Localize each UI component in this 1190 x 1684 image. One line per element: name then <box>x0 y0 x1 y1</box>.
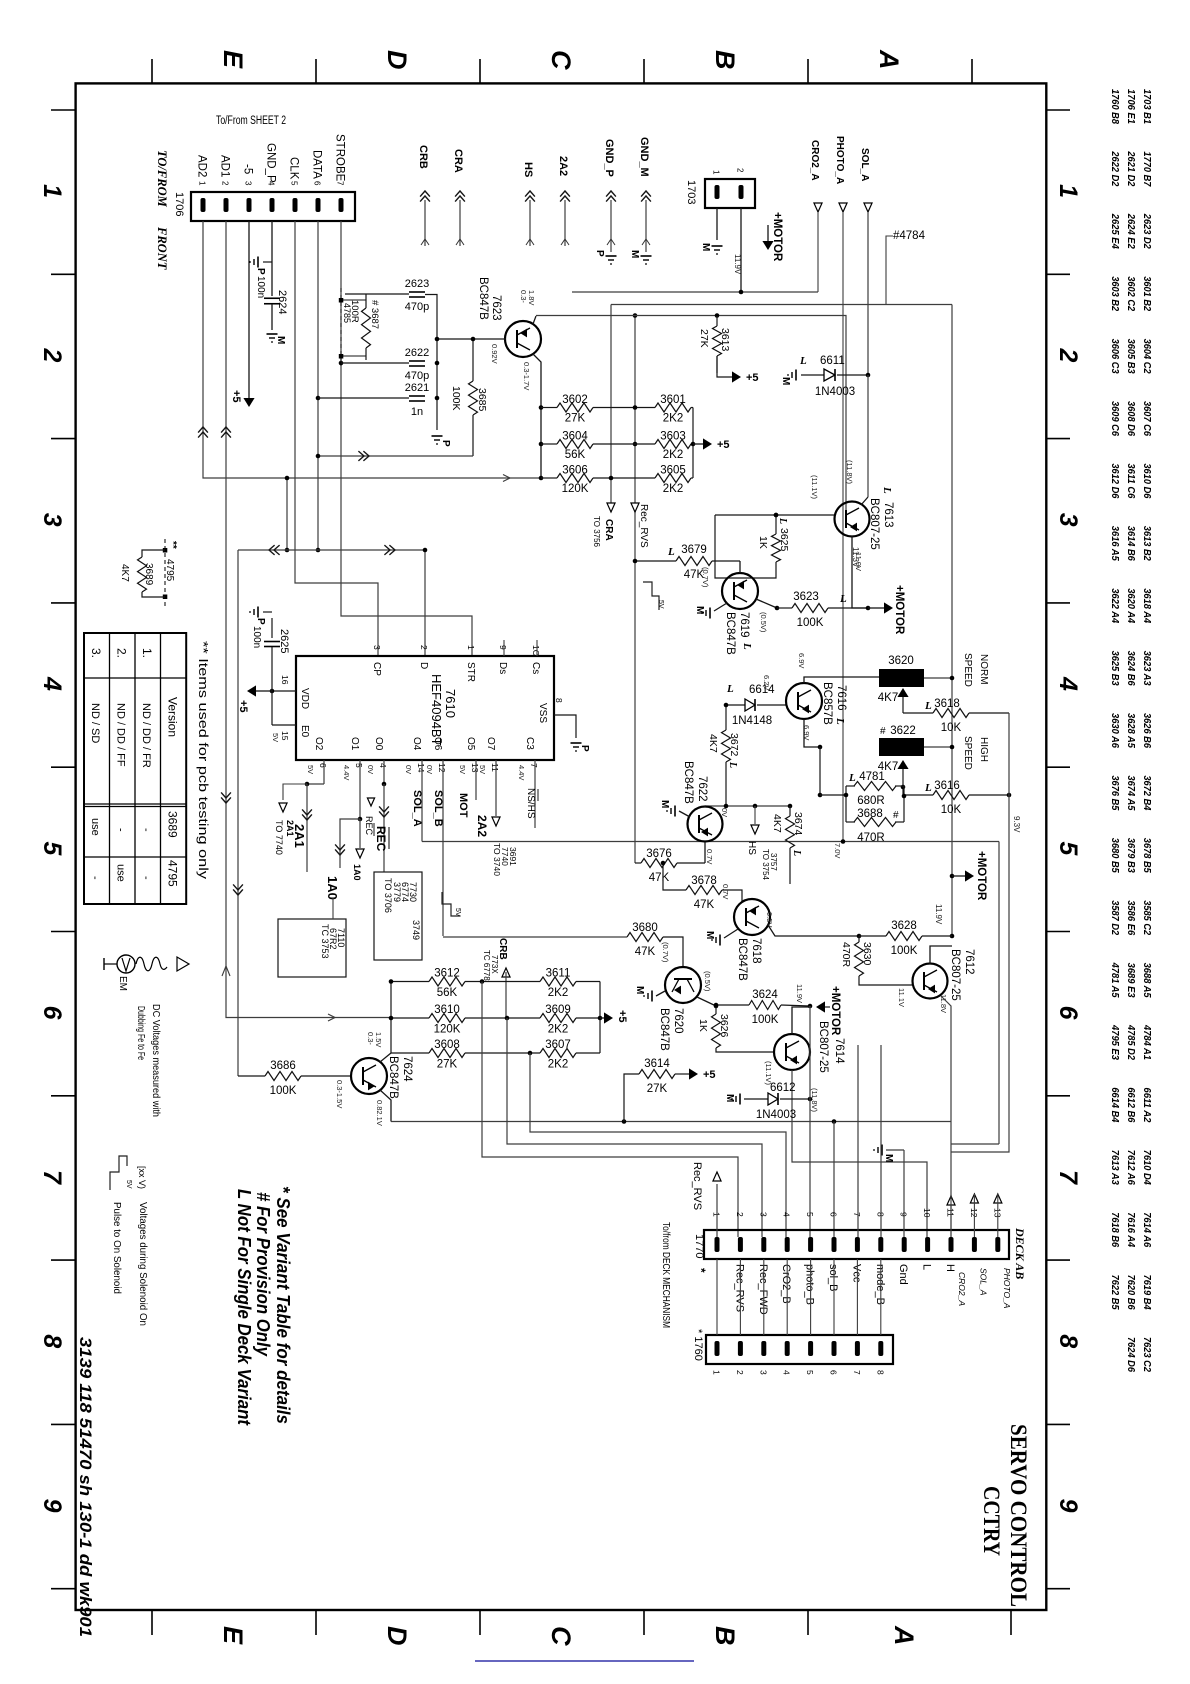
svg-text:CP: CP <box>371 662 382 676</box>
svg-text:470p: 470p <box>405 301 429 313</box>
svg-text:L: L <box>726 683 734 695</box>
svg-text:Rec_FWD: Rec_FWD <box>757 1264 769 1315</box>
node Rec_RVS out <box>716 1184 718 1237</box>
svg-text:3.: 3. <box>89 648 103 658</box>
variant table grid <box>84 633 186 904</box>
svg-text:3689: 3689 <box>143 563 154 586</box>
svg-text:0V: 0V <box>425 765 434 774</box>
svg-text:L: L <box>881 486 893 494</box>
svg-text:1: 1 <box>198 181 207 186</box>
wire bus y1144 <box>507 1018 762 1237</box>
svg-text:3602: 3602 <box>562 394 588 406</box>
svg-text:7: 7 <box>852 1370 862 1375</box>
svg-text:VSS: VSS <box>537 703 548 723</box>
wire 7614 emitter <box>792 1007 810 1034</box>
wire AD2 <box>203 221 541 478</box>
capacitor 2622 470p <box>341 362 409 364</box>
svg-text:27K: 27K <box>565 413 586 425</box>
resistor 3688 470R <box>854 818 896 827</box>
node HS out <box>754 806 756 824</box>
resistor 3613 27K <box>713 326 722 356</box>
svg-text:7624: 7624 <box>401 1056 413 1082</box>
svg-text:P: P <box>440 440 451 447</box>
transistor 7618 BC847B <box>734 899 770 935</box>
svg-text:M: M <box>883 1154 894 1162</box>
pulse symbol 7619 <box>643 582 659 610</box>
svg-text:L: L <box>839 593 847 605</box>
svg-text:(0.5V): (0.5V) <box>703 971 712 992</box>
svg-text:2A2: 2A2 <box>475 815 489 837</box>
svg-text:1C: 1C <box>531 645 541 656</box>
svg-text:3612: 3612 <box>434 968 460 980</box>
svg-text:7612 A6: 7612 A6 <box>1125 1150 1137 1185</box>
connector 1706 body <box>191 192 355 221</box>
svg-text:1706: 1706 <box>173 192 185 216</box>
junction D input <box>423 548 428 553</box>
node +MOTOR 7614 <box>816 1001 825 1012</box>
svg-text:Rec_RVS: Rec_RVS <box>638 504 649 548</box>
svg-text:3674 A5: 3674 A5 <box>1125 775 1137 810</box>
svg-text:1: 1 <box>712 1370 722 1375</box>
svg-text:CRA: CRA <box>603 519 614 541</box>
svg-text:3678: 3678 <box>691 875 717 887</box>
diode 6611 1N4003 <box>801 374 824 376</box>
svg-text:100n: 100n <box>251 626 262 648</box>
wire Rec_RVS vertical <box>634 316 636 864</box>
svg-text:7623 C2: 7623 C2 <box>1141 1337 1153 1372</box>
svg-text:16: 16 <box>280 675 290 685</box>
svg-text:BC807-25: BC807-25 <box>949 949 961 1001</box>
svg-text:NS/HS: NS/HS <box>525 788 536 819</box>
svg-text:-: - <box>140 876 152 880</box>
svg-text:2623: 2623 <box>405 278 429 290</box>
svg-text:HIGH: HIGH <box>978 737 989 762</box>
svg-text:6612: 6612 <box>770 1082 796 1094</box>
svg-text:3622 A4: 3622 A4 <box>1109 588 1121 623</box>
svg-text:7610 D4: 7610 D4 <box>1141 1150 1153 1185</box>
wire y316 bus <box>536 316 846 516</box>
svg-text:mode_B: mode_B <box>874 1264 886 1305</box>
svg-text:HEF4094BT: HEF4094BT <box>429 674 444 746</box>
svg-text:A: A <box>874 49 904 70</box>
wire 7624 emitter <box>380 1090 391 1122</box>
svg-text:9.3V: 9.3V <box>1012 816 1021 833</box>
transistor 7622 BC847B <box>688 807 723 842</box>
connector 1703 body <box>705 179 755 208</box>
svg-text:B: B <box>710 50 740 70</box>
svg-text:4: 4 <box>38 676 66 691</box>
svg-text:3: 3 <box>38 513 66 527</box>
resistor 3678 47K <box>686 886 722 895</box>
svg-text:3613: 3613 <box>719 328 731 352</box>
svg-text:3607 C6: 3607 C6 <box>1141 401 1153 436</box>
node CRB <box>502 968 510 977</box>
svg-text:3616: 3616 <box>934 780 960 792</box>
svg-text:CRA: CRA <box>452 149 464 173</box>
svg-text:-: - <box>115 828 127 832</box>
junction dots array1 <box>633 405 638 410</box>
svg-text:1706 E1: 1706 E1 <box>1125 89 1137 124</box>
svg-text:MOT: MOT <box>457 793 469 818</box>
svg-text:1n: 1n <box>411 406 423 418</box>
svg-text:1: 1 <box>1054 184 1082 198</box>
wire PHOTO_A down <box>842 212 844 842</box>
ground P 2624 <box>257 257 259 268</box>
transistor 7624 BC847B <box>351 1058 387 1094</box>
wire array2 left vertical <box>390 982 392 1054</box>
svg-text:FRONT: FRONT <box>155 226 169 271</box>
resistor 3687 100R <box>362 308 371 348</box>
svg-text:9: 9 <box>498 645 508 650</box>
svg-text:3618 A4: 3618 A4 <box>1141 588 1153 623</box>
svg-text:1: 1 <box>712 170 721 175</box>
wire 7623 emitter <box>533 354 541 478</box>
svg-text:M: M <box>700 243 711 251</box>
resistor 3611 2K2 <box>540 977 576 986</box>
svg-text:C: C <box>546 1626 576 1646</box>
svg-text:L: L <box>741 642 753 650</box>
svg-text:5: 5 <box>38 841 66 856</box>
svg-text:L: L <box>791 849 802 856</box>
svg-text:+5: +5 <box>230 390 242 403</box>
svg-text:2K2: 2K2 <box>663 449 683 461</box>
connector 1770 out arrows <box>947 1196 955 1205</box>
wire array2 right vertical <box>599 982 601 1054</box>
svg-text:7: 7 <box>1054 1170 1082 1185</box>
svg-text:SPEED: SPEED <box>962 736 973 770</box>
node +5 array1 <box>703 438 712 449</box>
svg-text:-5: -5 <box>242 164 254 174</box>
svg-text:7622 B5: 7622 B5 <box>1109 1275 1121 1310</box>
wire CLK <box>295 221 378 656</box>
svg-text:8: 8 <box>875 1370 885 1375</box>
svg-text:D: D <box>382 50 412 70</box>
svg-text:3610: 3610 <box>434 1004 460 1016</box>
svg-text:L: L <box>848 772 856 784</box>
wire 4784 branch <box>886 236 893 305</box>
connector 1706 pins <box>201 198 206 212</box>
resistor 3630 470R <box>855 942 864 976</box>
wire 7622 emitter gnd <box>679 811 690 817</box>
svg-text:Cs: Cs <box>530 662 541 674</box>
svg-text:L: L <box>834 717 846 725</box>
svg-text:1: 1 <box>38 184 66 198</box>
svg-text:2: 2 <box>38 347 66 362</box>
wire DATA <box>317 221 319 550</box>
svg-text:9: 9 <box>1054 1499 1082 1513</box>
svg-text:3608 D6: 3608 D6 <box>1125 401 1137 436</box>
svg-text:3586 E6: 3586 E6 <box>1125 900 1137 935</box>
svg-text:10K: 10K <box>941 804 962 816</box>
wire mode pin8 <box>880 1045 882 1237</box>
svg-text:100K: 100K <box>891 945 918 957</box>
svg-text:DC Voltages measured with: DC Voltages measured with <box>150 1004 162 1117</box>
wire 3620 to rail <box>924 677 952 679</box>
svg-text:1.8V: 1.8V <box>527 290 536 305</box>
svg-text:EM: EM <box>117 976 128 991</box>
svg-text:SOL_A: SOL_A <box>859 148 870 181</box>
svg-text:0V: 0V <box>720 808 729 817</box>
svg-text:3612 D6: 3612 D6 <box>1109 463 1121 498</box>
resistor 3610 120K <box>429 1014 465 1023</box>
svg-text:PHOTO_A: PHOTO_A <box>1002 1268 1012 1309</box>
svg-text:M: M <box>629 250 640 258</box>
wire 7614 collector <box>792 1070 927 1237</box>
svg-text:8: 8 <box>875 1212 885 1217</box>
resistor 3672 4K7 <box>722 730 731 762</box>
diode 6614 1N4148 <box>726 704 745 706</box>
ground P cap chain <box>432 435 443 437</box>
resistor 3680 47K <box>627 933 663 942</box>
ground M 6611 <box>795 370 797 381</box>
svg-text:L: L <box>924 782 932 794</box>
svg-text:3: 3 <box>758 1370 768 1375</box>
svg-text:7623: 7623 <box>490 295 502 321</box>
wire 7623 collector <box>533 316 536 324</box>
svg-text:BC847B: BC847B <box>387 1056 399 1099</box>
ground P 2625 <box>257 607 259 618</box>
svg-text:7620: 7620 <box>672 1008 684 1034</box>
svg-text:CRB: CRB <box>417 145 429 169</box>
svg-text:5V: 5V <box>657 600 664 609</box>
svg-text:2: 2 <box>1054 347 1082 362</box>
svg-text:12: 12 <box>437 763 447 773</box>
wire 1A0 to box <box>339 880 341 905</box>
svg-text:+5: +5 <box>616 1010 628 1023</box>
svg-text:Version: Version <box>166 697 180 737</box>
drawing frame <box>76 83 1047 1610</box>
svg-text:3605 B3: 3605 B3 <box>1125 339 1137 374</box>
svg-text:+5: +5 <box>237 700 249 713</box>
svg-text:2: 2 <box>736 168 745 173</box>
svg-text:4785 D2: 4785 D2 <box>1125 1024 1137 1060</box>
svg-text:L: L <box>777 517 788 524</box>
svg-text:3680 B5: 3680 B5 <box>1109 838 1121 873</box>
svg-text:4.4V: 4.4V <box>342 765 351 780</box>
svg-text:L: L <box>921 1264 933 1270</box>
resistor 3689 4K7 with 4795 option <box>164 539 166 609</box>
svg-text:3676 B5: 3676 B5 <box>1109 775 1121 810</box>
svg-text:BC847B: BC847B <box>658 1008 670 1051</box>
svg-text:Dubbing Fe to Fe: Dubbing Fe to Fe <box>135 1006 147 1060</box>
svg-text:(11.1V): (11.1V) <box>810 475 819 500</box>
wire 7619 out <box>756 599 777 608</box>
wire 7613 base <box>715 514 834 516</box>
wire 7616 emitter <box>804 719 820 747</box>
svg-text:1760 B8: 1760 B8 <box>1109 89 1121 124</box>
wire 7619 emitter gnd <box>714 603 727 611</box>
svg-text:3628 A5: 3628 A5 <box>1125 713 1137 748</box>
svg-text:Rec_RVS: Rec_RVS <box>691 1162 703 1210</box>
svg-text:3609: 3609 <box>545 1004 571 1016</box>
svg-text:TO 3754: TO 3754 <box>761 849 770 881</box>
svg-text:3603: 3603 <box>660 431 686 443</box>
svg-text:27K: 27K <box>437 1059 458 1071</box>
svg-text:0.92V: 0.92V <box>490 344 499 364</box>
svg-text:STR: STR <box>465 662 476 682</box>
svg-text:SPEED: SPEED <box>962 653 973 687</box>
svg-text:0.3-: 0.3- <box>519 290 528 303</box>
capacitor 2625 100n <box>271 618 273 638</box>
box TO 3706 <box>374 872 422 960</box>
svg-text:6.9V: 6.9V <box>797 653 806 668</box>
svg-text:3601: 3601 <box>660 394 686 406</box>
svg-text:CRO2_A: CRO2_A <box>957 1272 967 1306</box>
svg-text:6614 B4: 6614 B4 <box>1109 1087 1121 1122</box>
ic 7610 HEF4094BT body <box>296 656 554 760</box>
svg-text:47K: 47K <box>649 872 670 884</box>
svg-text:5: 5 <box>1054 841 1082 856</box>
svg-text:To/from DECK MECHANISM: To/from DECK MECHANISM <box>660 1222 671 1328</box>
svg-text:11.1V: 11.1V <box>897 988 906 1007</box>
svg-text:7110: 7110 <box>336 928 346 947</box>
svg-text:1703: 1703 <box>685 180 697 204</box>
svg-text:3609 C6: 3609 C6 <box>1109 401 1121 436</box>
svg-text:+5: +5 <box>717 439 730 451</box>
svg-text:VDD: VDD <box>299 688 310 709</box>
resistor 3626 1K <box>712 1014 721 1048</box>
wire vcc pin7 <box>857 1045 859 1237</box>
svg-text:DECK AB: DECK AB <box>1013 1227 1027 1279</box>
wire bus y550 <box>238 550 425 656</box>
resistor 3606 120K <box>557 474 593 483</box>
connector 1770 body <box>704 1230 1009 1259</box>
trimmer 3620 wiper <box>897 688 908 697</box>
svg-text:(0.7V): (0.7V) <box>701 567 710 588</box>
svg-text:3139 118 51470 sh 130-1 dd wk9: 3139 118 51470 sh 130-1 dd wk901 <box>76 1337 95 1637</box>
resistor 3603 2K2 <box>655 440 691 449</box>
svg-text:7616 A4: 7616 A4 <box>1125 1212 1137 1247</box>
wire 7613 collector <box>852 536 868 608</box>
svg-text:L Not For Single Deck Variant: L Not For Single Deck Variant <box>234 1189 255 1426</box>
wire x820 <box>819 747 821 795</box>
svg-text:2: 2 <box>419 645 429 650</box>
svg-text:4K7: 4K7 <box>878 692 898 704</box>
svg-text:BC847B: BC847B <box>724 612 736 655</box>
svg-text:11.9V: 11.9V <box>795 984 804 1003</box>
svg-text:3611: 3611 <box>546 968 571 980</box>
node +5 array2 <box>604 1012 613 1023</box>
svg-text:27K: 27K <box>698 329 710 348</box>
svg-text:3680: 3680 <box>632 922 658 934</box>
svg-text:7619: 7619 <box>738 612 750 638</box>
svg-text:2: 2 <box>735 1370 745 1375</box>
svg-text:1770 B7: 1770 B7 <box>1141 151 1153 187</box>
svg-text:**: ** <box>167 541 178 549</box>
svg-text:4781: 4781 <box>859 771 885 783</box>
node +MOTOR 7613 <box>884 602 893 613</box>
svg-text:3618: 3618 <box>934 698 960 710</box>
svg-text:3620: 3620 <box>888 655 914 667</box>
svg-text:ND / SD: ND / SD <box>89 703 101 743</box>
svg-text:6: 6 <box>318 763 328 768</box>
blue underline mark <box>475 1660 694 1662</box>
svg-text:L: L <box>727 761 738 768</box>
svg-text:7618 B6: 7618 B6 <box>1109 1212 1121 1247</box>
wire x868 down <box>867 375 869 497</box>
resistor 3625 1K <box>772 534 781 562</box>
svg-text:7612: 7612 <box>963 949 975 975</box>
wire SOL_A rail <box>422 841 999 843</box>
svg-text:5: 5 <box>290 181 299 186</box>
svg-text:7613 A3: 7613 A3 <box>1109 1150 1121 1185</box>
svg-text:3688 A5: 3688 A5 <box>1141 963 1153 998</box>
svg-text:5: 5 <box>805 1370 815 1375</box>
wire y806 <box>705 805 790 807</box>
svg-text:M: M <box>659 800 670 808</box>
svg-text:1.5V: 1.5V <box>374 1032 383 1047</box>
wire 7613 emitter <box>861 497 868 505</box>
svg-text:3685: 3685 <box>476 388 488 412</box>
legend pulse waveform <box>110 1156 127 1190</box>
svg-text:ND / DD / FR: ND / DD / FR <box>140 703 152 768</box>
svg-text:#: # <box>893 810 899 821</box>
svg-text:D: D <box>418 662 429 669</box>
svg-text:O0: O0 <box>373 737 384 751</box>
resistor 3604 56K <box>557 440 593 449</box>
wire 7620 out <box>697 997 716 1006</box>
resistor 3679 47K <box>676 557 712 566</box>
svg-text:H: H <box>944 1264 956 1272</box>
wire 3601-3605 right vertical <box>692 408 694 479</box>
transistor 7620 BC847B <box>665 967 701 1003</box>
wire rail 9.3V <box>951 713 1009 1152</box>
svg-text:4795: 4795 <box>166 860 180 887</box>
svg-text:7620 B6: 7620 B6 <box>1125 1275 1137 1310</box>
svg-text:5V: 5V <box>478 765 487 774</box>
ground M 2624 <box>267 333 278 335</box>
svg-text:6: 6 <box>829 1370 839 1375</box>
svg-text:3749: 3749 <box>411 920 421 940</box>
svg-text:P: P <box>255 618 266 625</box>
svg-text:M: M <box>275 336 286 344</box>
svg-text:-: - <box>140 828 152 832</box>
node +MOTOR top <box>762 241 773 250</box>
transistor 7612 BC807-25 <box>913 964 948 999</box>
EM motor symbol <box>103 958 105 970</box>
svg-text:7.0V: 7.0V <box>833 843 842 858</box>
connector 1703 pins <box>715 185 720 199</box>
svg-text:3628: 3628 <box>891 920 917 932</box>
resistor 3674 4K7 <box>786 816 795 848</box>
svg-text:3607: 3607 <box>545 1039 571 1051</box>
svg-text:4K7: 4K7 <box>707 734 719 753</box>
svg-text:7614: 7614 <box>833 1038 845 1064</box>
svg-text:L: L <box>924 700 932 712</box>
resistor 3685 100K <box>469 381 478 415</box>
svg-text:3678 B5: 3678 B5 <box>1141 838 1153 873</box>
svg-text:2622 D2: 2622 D2 <box>1109 151 1121 187</box>
svg-text:0V: 0V <box>366 765 375 774</box>
svg-text:(0.7V): (0.7V) <box>661 942 670 963</box>
svg-text:To/From SHEET 2: To/From SHEET 2 <box>216 115 286 127</box>
svg-text:2K2: 2K2 <box>663 483 683 495</box>
svg-text:6612 B6: 6612 B6 <box>1125 1087 1137 1122</box>
svg-text:* See Variant Table for detai: * See Variant Table for details <box>273 1186 294 1424</box>
wire GND_P pin4 <box>271 221 273 296</box>
svg-text:2624 E2: 2624 E2 <box>1125 213 1137 249</box>
svg-text:Voltages during Solenoid On: Voltages during Solenoid On <box>137 1202 148 1326</box>
svg-text:AD1: AD1 <box>219 155 231 177</box>
svg-text:6611 A2: 6611 A2 <box>1141 1087 1153 1122</box>
svg-text:3616 A5: 3616 A5 <box>1109 526 1121 561</box>
svg-text:1A0: 1A0 <box>325 876 340 900</box>
svg-text:** Items used for pcb testing: ** Items used for pcb testing only <box>196 641 211 880</box>
svg-text:# 3687: # 3687 <box>369 300 380 329</box>
wire link x287 <box>286 478 288 550</box>
wire 3622 to rail <box>924 746 952 748</box>
wire 4781 3688 brackets <box>845 786 847 822</box>
